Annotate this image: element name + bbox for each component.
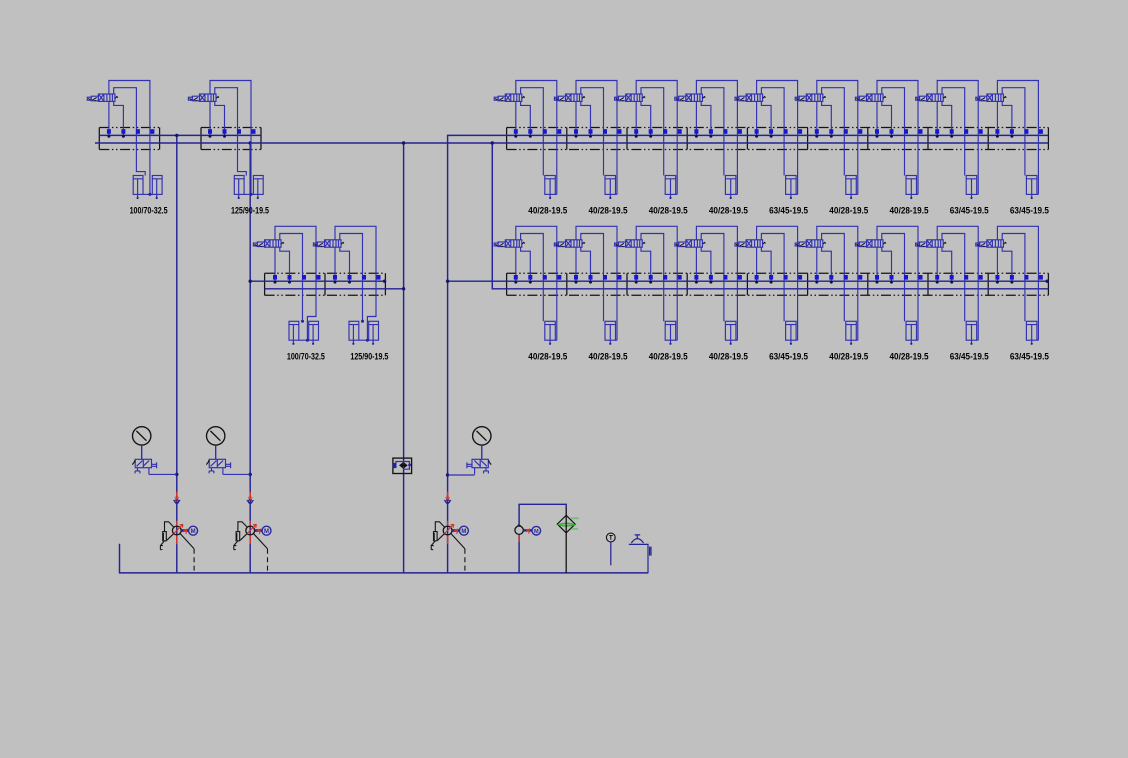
manifold ports of unit C1 (514, 129, 562, 134)
manifold ports of unit D2 (574, 275, 622, 280)
manifold ports of unit C8 (935, 129, 983, 134)
wire unit D2 loop B (valve to cylinder cap side) (581, 234, 604, 322)
cylinder pair of unit B1 (289, 321, 319, 345)
valve of unit D9 solenoid directional valve (976, 240, 1004, 247)
cylinder of unit C3 (665, 176, 677, 198)
manifold ports of unit A1 (107, 129, 154, 134)
filler breather B1 (629, 535, 651, 573)
wire unit C9 port T elbow to manifold (1002, 101, 1012, 135)
wire filter F1 to tank line (black, through filter) (565, 508, 567, 573)
wire unit D3 loop A (valve to cylinder rod side) (636, 226, 677, 340)
junction dots unit C7 (876, 135, 879, 138)
wire riser pump1 line (176, 135, 178, 573)
valve of unit C4 solenoid directional valve (675, 94, 703, 101)
svg-text:63/45-19.5: 63/45-19.5 (950, 206, 989, 216)
wire unit D5 port P down to manifold bus (756, 247, 758, 281)
svg-text:63/45-19.5: 63/45-19.5 (769, 351, 808, 361)
cylinder of unit C4 (725, 176, 737, 198)
manifold ports of unit C2 (574, 129, 622, 134)
wire unit C8 port T elbow to manifold (942, 101, 952, 135)
svg-text:63/45-19.5: 63/45-19.5 (1010, 206, 1049, 216)
junction dots unit D7 (876, 281, 879, 284)
wire unit C2 loop B (valve to cylinder cap side) (581, 88, 604, 176)
wire pressure bus row2 right group (448, 280, 1049, 282)
wire unit A2 port P down to manifold bus (209, 101, 211, 135)
svg-text:40/28-19.5: 40/28-19.5 (709, 206, 748, 216)
cylinder of unit C7 (906, 176, 918, 198)
junction dots unit D9 (996, 281, 999, 284)
wire unit D8 port P down to manifold bus (936, 247, 938, 281)
junction dots unit B1 (274, 281, 277, 284)
junction dots unit C8 (936, 135, 939, 138)
wire gauge G2 to pump2 line (223, 473, 250, 475)
valve of unit C8 solenoid directional valve (916, 94, 944, 101)
wire unit D4 port P down to manifold bus (695, 247, 697, 281)
svg-text:63/45-19.5: 63/45-19.5 (950, 351, 989, 361)
suction strainer of pump P2 (234, 522, 248, 550)
wire unit A1 loop A (valve to cylinder rod side) (109, 81, 150, 195)
valve of unit D2 solenoid directional valve (554, 240, 582, 247)
svg-text:40/28-19.5: 40/28-19.5 (649, 206, 688, 216)
wire unit C8 loop A (valve to cylinder rod side) (937, 81, 978, 195)
wire unit D5 loop B (valve to cylinder cap side) (761, 234, 784, 322)
manifold ports of unit B2 (333, 275, 381, 280)
wire unit C5 loop A (valve to cylinder rod side) (757, 81, 798, 195)
svg-text:125/90-19.5: 125/90-19.5 (350, 351, 388, 361)
wire unit B1 loop B (valve to cylinder cap side) (280, 234, 303, 322)
valve of unit A2 solenoid directional valve (188, 94, 216, 101)
wire unit D4 port T elbow to manifold (701, 247, 711, 281)
wire unit D6 port T elbow to manifold (822, 247, 832, 281)
valve of unit C6 solenoid directional valve (795, 94, 823, 101)
electric motor M1 (189, 526, 198, 535)
wire pressure bus row1 left group (99, 134, 261, 136)
wire unit C3 port T elbow to manifold (641, 101, 651, 135)
wire unit C8 port P down to manifold bus (936, 101, 938, 135)
junction dots unit C6 (815, 135, 818, 138)
svg-text:40/28-19.5: 40/28-19.5 (890, 206, 929, 216)
wire unit C4 loop B (valve to cylinder cap side) (701, 88, 724, 176)
suction strainer of pump P1 (160, 522, 174, 550)
valve of unit D7 solenoid directional valve (855, 240, 883, 247)
manifold ports of unit C9 (995, 129, 1043, 134)
gauge isolator valve G2 (209, 459, 231, 474)
manifold ports of unit C3 (634, 129, 682, 134)
electric motor M3 (459, 526, 468, 535)
wire unit C3 port P down to manifold bus (635, 101, 637, 135)
manifold ports of unit D1 (514, 275, 562, 280)
junction dots unit D6 (815, 281, 818, 284)
wire unit A1 loop B (valve to cylinder cap side) (114, 88, 146, 176)
drive shaft P2 (255, 529, 263, 532)
valve of unit D5 solenoid directional valve (735, 240, 763, 247)
suction strainer of pump P3 (431, 522, 445, 550)
wire unit D2 loop A (valve to cylinder rod side) (576, 226, 617, 340)
svg-text:40/28-19.5: 40/28-19.5 (589, 206, 628, 216)
valve of unit C7 solenoid directional valve (855, 94, 883, 101)
wire unit D1 loop B (valve to cylinder cap side) (521, 234, 544, 322)
thermometer T1 (606, 533, 615, 542)
drive shaft P3 (452, 529, 460, 532)
valve of unit A1 solenoid directional valve (87, 94, 115, 101)
wire unit C6 loop B (valve to cylinder cap side) (822, 88, 845, 176)
wire riser pump2 line (249, 143, 251, 573)
manifold ports of unit C5 (755, 129, 803, 134)
valve of unit D3 solenoid directional valve (615, 240, 643, 247)
wire unit D7 port P down to manifold bus (876, 247, 878, 281)
manifold ports of unit D3 (634, 275, 682, 280)
manifold block M-A2 (dash-dot) (201, 128, 261, 150)
wire unit D8 loop B (valve to cylinder cap side) (942, 234, 965, 322)
wire tank return line (120, 544, 649, 573)
cylinder pair of unit B2 (349, 321, 379, 345)
wire unit D6 loop B (valve to cylinder cap side) (822, 234, 845, 322)
wire unit C5 loop B (valve to cylinder cap side) (761, 88, 784, 176)
pressure switch PS1 (393, 458, 412, 473)
svg-text:40/28-19.5: 40/28-19.5 (829, 206, 868, 216)
junction dots unit B2 (334, 281, 337, 284)
wire unit C3 loop B (valve to cylinder cap side) (641, 88, 664, 176)
svg-text:40/28-19.5: 40/28-19.5 (709, 351, 748, 361)
wire unit C7 loop B (valve to cylinder cap side) (882, 88, 905, 176)
check valve CV3 with red flow arrow (447, 494, 449, 500)
pressure gauge G1 (133, 427, 151, 445)
gauge isolator valve G1 (135, 459, 157, 474)
cylinder of unit D9 (1026, 321, 1038, 343)
wire unit D9 port T elbow to manifold (1002, 247, 1012, 281)
svg-text:40/28-19.5: 40/28-19.5 (528, 351, 567, 361)
valve of unit C9 solenoid directional valve (976, 94, 1004, 101)
junction dots unit C5 (755, 135, 758, 138)
wire unit D3 port P down to manifold bus (635, 247, 637, 281)
manifold block M-D (dash-dot) (507, 273, 1049, 295)
valve of unit D8 solenoid directional valve (916, 240, 944, 247)
wire unit C1 loop B (valve to cylinder cap side) (521, 88, 544, 176)
valve of unit D1 solenoid directional valve (494, 240, 522, 247)
wire unit D6 port P down to manifold bus (816, 247, 818, 281)
valve of unit C1 solenoid directional valve (494, 94, 522, 101)
wire unit D3 port T elbow to manifold (641, 247, 651, 281)
junction dots unit C3 (635, 135, 638, 138)
junction dots on buses (175, 134, 178, 137)
wire unit B2 port P down to manifold bus (334, 247, 336, 281)
wire unit C7 port T elbow to manifold (882, 101, 892, 135)
valve of unit D6 solenoid directional valve (795, 240, 823, 247)
junction dots unit D8 (936, 281, 939, 284)
junction dots unit D3 (635, 281, 638, 284)
cylinder of unit D6 (846, 321, 858, 343)
junction dots unit D5 (755, 281, 758, 284)
cylinder of unit D2 (605, 321, 617, 343)
gauge isolator valve G3 (467, 459, 489, 474)
junction dots unit C1 (514, 135, 517, 138)
svg-text:40/28-19.5: 40/28-19.5 (589, 351, 628, 361)
manifold ports of unit D4 (694, 275, 742, 280)
wire unit B1 loop A (valve to cylinder rod side) (275, 226, 316, 340)
manifold ports of unit D9 (995, 275, 1043, 280)
wire unit A1 port T elbow to manifold (114, 101, 124, 135)
wire unit B2 loop B (valve to cylinder cap side) (340, 234, 363, 322)
wire unit C2 loop A (valve to cylinder rod side) (576, 81, 617, 195)
pressure gauge G2 (207, 427, 225, 445)
circulation pump P4 loop wire (519, 504, 566, 526)
electric motor M4 (532, 526, 541, 535)
wire return bus row2 middle group (265, 288, 404, 290)
wire pressure bus row1 right group with riser to pump 3 (448, 135, 1049, 573)
cylinder of unit C5 (786, 176, 798, 198)
wire unit C4 port T elbow to manifold (701, 101, 711, 135)
drive shaft P1 (181, 529, 189, 532)
valve of unit B1 solenoid directional valve (253, 240, 281, 247)
manifold ports of unit D5 (755, 275, 803, 280)
manifold ports of unit A2 (208, 129, 256, 134)
cylinder of unit D8 (966, 321, 978, 343)
main pump P1 (variable, with motor) (176, 492, 178, 544)
wire unit A2 port T elbow to manifold (215, 101, 225, 135)
wire unit C2 port P down to manifold bus (575, 101, 577, 135)
svg-text:63/45-19.5: 63/45-19.5 (769, 206, 808, 216)
wire unit B2 loop A (valve to cylinder rod side) (335, 226, 376, 340)
wire unit C7 loop A (valve to cylinder rod side) (877, 81, 918, 195)
return filter F1 (black diamond, green element) (557, 515, 575, 533)
check valve CV1 with red flow arrow (176, 494, 178, 500)
wire unit C1 port T elbow to manifold (521, 101, 531, 135)
wire unit D5 loop A (valve to cylinder rod side) (757, 226, 798, 340)
wire unit C1 port P down to manifold bus (515, 101, 517, 135)
svg-text:40/28-19.5: 40/28-19.5 (528, 206, 567, 216)
manifold ports of unit C4 (694, 129, 742, 134)
wire unit C5 port T elbow to manifold (761, 101, 771, 135)
pressure gauge G3 (473, 427, 491, 445)
wire pump P4 suction to tank line (518, 535, 520, 573)
svg-text:125/90-19.5: 125/90-19.5 (231, 206, 269, 216)
wire unit D6 loop A (valve to cylinder rod side) (817, 226, 858, 340)
wire gauge G1 to pump1 line (149, 473, 177, 475)
wire unit A2 loop A (valve to cylinder rod side) (210, 81, 251, 195)
manifold block M-C (dash-dot) (507, 128, 1049, 150)
cylinder of unit D1 (545, 321, 557, 343)
circulation pump P4 (515, 526, 523, 534)
junction dots unit A2 (209, 135, 212, 138)
manifold ports of unit D6 (815, 275, 863, 280)
check valve CV2 with red flow arrow (249, 494, 251, 500)
electric motor M2 (262, 526, 271, 535)
wire unit D2 port T elbow to manifold (581, 247, 591, 281)
wire unit D2 port P down to manifold bus (575, 247, 577, 281)
wire unit C9 port P down to manifold bus (996, 101, 998, 135)
junction dots unit D1 (514, 281, 517, 284)
wire unit C6 loop A (valve to cylinder rod side) (817, 81, 858, 195)
wire unit C7 port P down to manifold bus (876, 101, 878, 135)
wire unit D9 loop B (valve to cylinder cap side) (1002, 234, 1025, 322)
wire unit B1 port T elbow to manifold (280, 247, 290, 281)
cylinder of unit C9 (1026, 176, 1038, 198)
wire riser pressure-switch line (403, 143, 405, 573)
wire unit D7 port T elbow to manifold (882, 247, 892, 281)
cylinder of unit D7 (906, 321, 918, 343)
wire unit D1 loop A (valve to cylinder rod side) (516, 226, 557, 340)
wire unit D9 port P down to manifold bus (996, 247, 998, 281)
svg-text:M: M (264, 529, 269, 535)
wire main return bus (row1 lower, full width) (95, 142, 1048, 144)
cylinder of unit C1 (545, 176, 557, 198)
cylinder of unit D3 (665, 321, 677, 343)
wire unit D7 loop A (valve to cylinder rod side) (877, 226, 918, 340)
wire unit C3 loop A (valve to cylinder rod side) (636, 81, 677, 195)
svg-text:M: M (191, 529, 196, 535)
svg-text:100/70-32.5: 100/70-32.5 (287, 351, 325, 361)
wire return bus row2 right group with riser from main return (492, 143, 1048, 289)
valve of unit C3 solenoid directional valve (615, 94, 643, 101)
case drain of pump P1 (dashed) (180, 534, 194, 549)
wire unit C4 port P down to manifold bus (695, 101, 697, 135)
svg-text:63/45-19.5: 63/45-19.5 (1010, 351, 1049, 361)
cylinder of unit C6 (846, 176, 858, 198)
wire unit D4 loop B (valve to cylinder cap side) (701, 234, 724, 322)
wire unit D8 port T elbow to manifold (942, 247, 952, 281)
wire unit D7 loop B (valve to cylinder cap side) (882, 234, 905, 322)
wire unit C1 loop A (valve to cylinder rod side) (516, 81, 557, 195)
valve of unit C2 solenoid directional valve (554, 94, 582, 101)
wire unit B2 port T elbow to manifold (340, 247, 350, 281)
manifold block M-A1 (dash-dot) (99, 128, 159, 150)
wire unit C9 loop B (valve to cylinder cap side) (1002, 88, 1025, 176)
wire unit D8 loop A (valve to cylinder rod side) (937, 226, 978, 340)
cylinder of unit C8 (966, 176, 978, 198)
wire unit D1 port P down to manifold bus (515, 247, 517, 281)
wire unit D1 port T elbow to manifold (521, 247, 531, 281)
cylinder pair of unit A2 (234, 176, 263, 200)
valve of unit B2 solenoid directional valve (313, 240, 341, 247)
main pump P3 (variable, with motor) (447, 492, 449, 544)
wire unit C6 port P down to manifold bus (816, 101, 818, 135)
case drain of pump P2 (dashed) (254, 534, 268, 549)
wire unit C2 port T elbow to manifold (581, 101, 591, 135)
svg-text:M: M (461, 529, 466, 535)
wire pressure bus row2 middle group (250, 280, 385, 282)
main pump P2 (variable, with motor) (249, 492, 251, 544)
junction dots unit A1 (107, 135, 110, 138)
drive shaft P4 (523, 529, 532, 531)
junction dots unit D4 (695, 281, 698, 284)
wire gauge G3 to pump3 line (448, 474, 475, 476)
wire unit B1 port P down to manifold bus (274, 247, 276, 281)
wire unit C9 loop A (valve to cylinder rod side) (997, 81, 1038, 195)
manifold block M-B (dash-dot) (265, 273, 386, 295)
cylinder of unit C2 (605, 176, 617, 198)
wire unit C5 port P down to manifold bus (756, 101, 758, 135)
case drain of pump P3 (dashed) (451, 534, 465, 549)
wire unit C8 loop B (valve to cylinder cap side) (942, 88, 965, 176)
manifold ports of unit D8 (935, 275, 983, 280)
wire unit D3 loop B (valve to cylinder cap side) (641, 234, 664, 322)
wire unit C6 port T elbow to manifold (822, 101, 832, 135)
cylinder of unit D5 (786, 321, 798, 343)
junction dots unit C4 (695, 135, 698, 138)
manifold ports of unit D7 (875, 275, 923, 280)
cylinder pair of unit A1 (133, 176, 162, 200)
wire unit C4 loop A (valve to cylinder rod side) (696, 81, 737, 195)
manifold ports of unit C7 (875, 129, 923, 134)
junction dots unit C9 (996, 135, 999, 138)
manifold ports of unit C6 (815, 129, 863, 134)
svg-text:40/28-19.5: 40/28-19.5 (890, 351, 929, 361)
svg-text:M: M (534, 529, 539, 535)
junction dots unit D2 (575, 281, 578, 284)
wire unit A1 port P down to manifold bus (108, 101, 110, 135)
svg-text:40/28-19.5: 40/28-19.5 (649, 351, 688, 361)
manifold ports of unit B1 (273, 275, 321, 280)
wire unit D9 loop A (valve to cylinder rod side) (997, 226, 1038, 340)
junction dots unit C2 (575, 135, 578, 138)
wire unit D4 loop A (valve to cylinder rod side) (696, 226, 737, 340)
wire unit A2 loop B (valve to cylinder cap side) (215, 88, 247, 176)
svg-text:100/70-32.5: 100/70-32.5 (130, 206, 168, 216)
valve of unit D4 solenoid directional valve (675, 240, 703, 247)
cylinder of unit D4 (725, 321, 737, 343)
svg-text:40/28-19.5: 40/28-19.5 (829, 351, 868, 361)
wire unit D5 port T elbow to manifold (761, 247, 771, 281)
valve of unit C5 solenoid directional valve (735, 94, 763, 101)
